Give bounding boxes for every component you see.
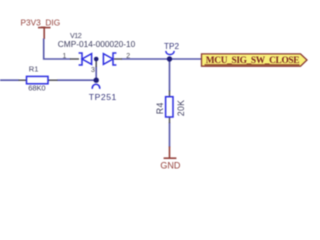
wire R1 left to edge bbox=[0, 79, 19, 81]
svg-text:2: 2 bbox=[126, 53, 130, 60]
svg-text:1: 1 bbox=[63, 53, 67, 60]
wire R1 right to TP251 junction bbox=[57, 79, 96, 81]
junction node TP2 bbox=[167, 56, 172, 61]
R4 bottom pin bbox=[169, 117, 171, 124]
resistor R4 body bbox=[166, 97, 173, 117]
wire TP2 junction down to R4 bbox=[169, 59, 171, 91]
diode V12 left (zener, cathode left) bbox=[79, 53, 92, 65]
svg-text:R4: R4 bbox=[155, 102, 165, 114]
pin 3 stub bbox=[95, 61, 97, 68]
wire R4 bottom to GND bbox=[169, 123, 171, 148]
pin stubs (dark) bbox=[19, 59, 170, 123]
port MCU_SIG_SW_CLOSE bbox=[202, 54, 308, 66]
wire P3V3 to pin1 of V12 bbox=[44, 39, 71, 60]
junction dot pin3 node bbox=[94, 57, 99, 62]
wire pin2 of V12 to port bbox=[122, 58, 202, 60]
svg-text:TP251: TP251 bbox=[89, 92, 117, 102]
svg-text:P3V3_DIG: P3V3_DIG bbox=[21, 17, 61, 27]
pin 1 stub bbox=[70, 58, 79, 60]
svg-text:20K: 20K bbox=[176, 100, 186, 117]
wire pin3 down to junction bbox=[95, 67, 97, 81]
svg-text:R1: R1 bbox=[29, 65, 39, 74]
R4 top pin bbox=[169, 91, 171, 98]
svg-text:GND: GND bbox=[160, 160, 181, 170]
testpoint TP251 arc bbox=[92, 84, 100, 89]
ground GND bbox=[164, 147, 177, 159]
R1 right pin bbox=[48, 79, 58, 81]
svg-text:CMP-014-000020-10: CMP-014-000020-10 bbox=[58, 39, 136, 49]
diode V12 right (zener, cathode right) bbox=[103, 53, 116, 65]
pin 2 stub bbox=[114, 58, 122, 60]
resistor R1 body bbox=[27, 76, 49, 83]
R1 left pin bbox=[19, 79, 27, 81]
port text underline bbox=[205, 64, 300, 66]
power port P3V3_DIG bbox=[38, 28, 51, 39]
svg-text:68K0: 68K0 bbox=[28, 84, 45, 93]
testpoint TP2 arc bbox=[166, 51, 174, 55]
svg-text:3: 3 bbox=[91, 67, 95, 74]
svg-text:TP2: TP2 bbox=[164, 42, 179, 51]
junction node TP251 bbox=[94, 78, 99, 83]
